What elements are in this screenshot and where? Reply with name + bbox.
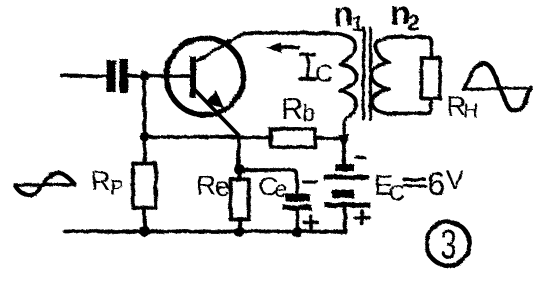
node bottom Re — [234, 227, 245, 238]
svg-text:H: H — [463, 100, 478, 123]
transistor VT circle — [167, 38, 244, 115]
resistor RP — [133, 164, 156, 208]
sine symbol input — [15, 173, 75, 195]
resistor RP lead top — [143, 142, 147, 164]
plus sign battery — [355, 211, 369, 224]
svg-text:R: R — [91, 166, 111, 196]
plus sign Ce — [305, 216, 318, 229]
resistor RH — [422, 58, 441, 99]
wire bias horizontal — [145, 135, 239, 139]
transistor collector lead — [194, 33, 243, 63]
svg-text:2: 2 — [408, 10, 420, 35]
resistor Re lead top — [238, 170, 242, 180]
svg-text:P: P — [110, 177, 124, 200]
wire to Ce — [244, 170, 297, 193]
wire collector to transformer — [243, 31, 325, 35]
svg-text:e: e — [215, 172, 230, 202]
svg-text:6: 6 — [427, 165, 445, 202]
transistor base bar — [190, 57, 196, 99]
transistor emitter arrow — [207, 92, 224, 108]
transformer core — [362, 28, 365, 119]
wire RH bottom — [391, 99, 432, 114]
arrow Ic — [272, 45, 298, 49]
node base junction — [140, 71, 150, 81]
node bottom Ce — [292, 227, 303, 238]
battery plate 2 long — [323, 175, 369, 180]
resistor Re lead bottom — [238, 220, 242, 232]
wire base — [128, 74, 190, 78]
minus sign battery — [356, 156, 364, 159]
svg-text:e: e — [274, 176, 287, 203]
svg-text:V: V — [446, 165, 464, 195]
node bottom RP — [139, 226, 150, 237]
battery plate 4 long — [325, 203, 371, 208]
wire input — [62, 74, 106, 78]
svg-text:R: R — [196, 170, 216, 201]
svg-text:1: 1 — [352, 11, 364, 36]
capacitor Ce plates — [283, 194, 312, 210]
svg-text:C: C — [389, 180, 406, 206]
wire bottom — [65, 230, 345, 234]
capacitor coupling plates — [107, 59, 129, 93]
svg-text:C: C — [315, 60, 333, 88]
transistor emitter lead — [195, 90, 239, 135]
capacitor Ce lead bottom — [295, 210, 299, 232]
sine symbol output — [464, 63, 531, 111]
marker circle 3 — [426, 222, 469, 265]
resistor Rb — [271, 129, 316, 147]
transformer winding n1 — [325, 33, 356, 124]
battery plate 1 short — [336, 164, 355, 171]
wire base divider vertical — [143, 76, 147, 137]
wire winding n1 to battery — [342, 122, 346, 164]
label Ic — [300, 55, 316, 79]
wire secondary to RH — [392, 37, 432, 58]
svg-text:3: 3 — [440, 221, 457, 268]
minus sign Ce — [304, 180, 317, 183]
equals sign of EC label — [404, 180, 425, 186]
battery plate 3 short — [332, 190, 354, 198]
resistor Re — [231, 179, 249, 219]
wire emitter vertical — [237, 136, 241, 166]
battery lead bottom — [343, 208, 347, 232]
node emitter junction — [234, 164, 245, 175]
node bias junction — [140, 132, 150, 142]
transformer winding n2 — [372, 37, 392, 114]
svg-text:b: b — [302, 100, 315, 127]
resistor RP lead bottom — [143, 208, 147, 232]
svg-text:R: R — [281, 91, 303, 126]
arrow on n1 lead — [338, 135, 350, 150]
resistor Rb leads — [239, 136, 345, 140]
